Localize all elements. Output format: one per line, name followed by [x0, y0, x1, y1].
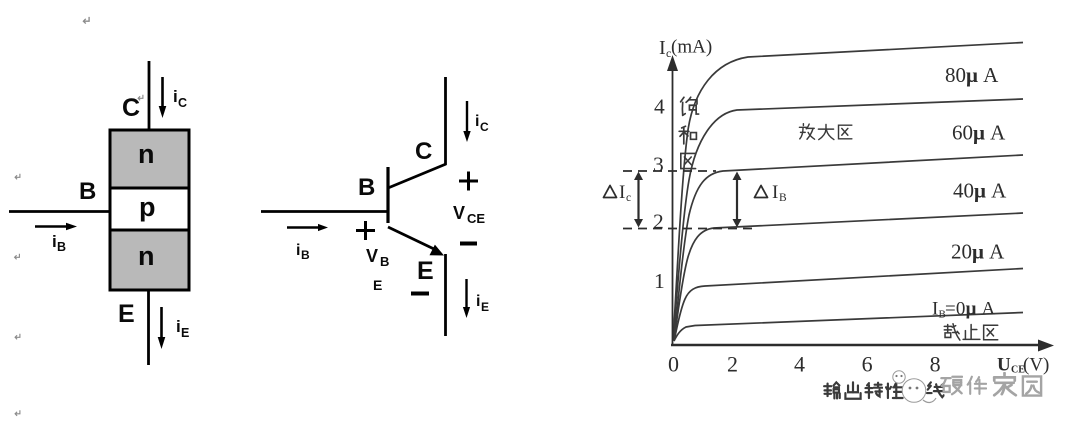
svg-text:I: I: [659, 37, 666, 59]
label delta Ic: [604, 186, 617, 198]
svg-text:2: 2: [727, 352, 738, 377]
svg-text:I: I: [932, 299, 938, 320]
base wire (symbol): [261, 210, 388, 213]
dashed line at Ic=3: [623, 170, 716, 172]
svg-text:80μ A: 80μ A: [945, 63, 999, 87]
small return mark after C: [138, 95, 143, 101]
current arrow iE (symbol): [463, 279, 470, 318]
paragraph return mark left 2: [15, 254, 20, 260]
svg-text:(V): (V): [1023, 355, 1049, 376]
svg-text:i: i: [476, 293, 480, 310]
svg-text:E: E: [417, 257, 434, 285]
region label saturation (vertical) : char bao: [681, 97, 699, 115]
collector vertical wire: [444, 77, 447, 165]
watermark char jia: [994, 373, 1016, 395]
svg-text:(mA): (mA): [671, 37, 712, 58]
current arrow iE (structure): [158, 307, 166, 349]
char qu (amplification): [839, 125, 852, 139]
char qu (saturation): [681, 153, 696, 168]
char qu (cutoff): [984, 325, 998, 339]
current arrow iB (structure): [35, 223, 77, 230]
svg-text:6: 6: [862, 352, 873, 377]
minus sign VCE: [460, 242, 477, 246]
logo foot squiggle: [923, 398, 936, 402]
svg-text:C: C: [122, 94, 140, 122]
x-axis: [671, 344, 1043, 346]
svg-text:C: C: [480, 120, 489, 134]
curve IB=60uA: [674, 155, 1023, 340]
region label amplification: char fang: [799, 124, 814, 139]
caption: char shu (output): [824, 382, 840, 398]
n region (top): [110, 130, 189, 188]
svg-text:B: B: [57, 240, 66, 254]
plus sign VBE: [356, 221, 375, 240]
svg-text:E: E: [373, 277, 382, 293]
label delta IB: [755, 186, 768, 198]
curve IB=40uA: [674, 213, 1023, 340]
emitter vertical wire: [444, 254, 447, 336]
svg-text:p: p: [139, 192, 156, 222]
x-axis arrowhead: [1038, 340, 1054, 352]
paragraph return mark left 3: [15, 334, 20, 340]
char zhi: [963, 325, 980, 340]
char chu: [845, 382, 860, 398]
svg-text:n: n: [138, 241, 155, 271]
svg-text:B: B: [79, 178, 96, 205]
base bar: [386, 167, 389, 223]
p region (middle): [110, 188, 189, 230]
curve IB=100uA (top, unlabeled): [673, 43, 1023, 341]
plus sign VCE: [459, 172, 478, 191]
svg-text:I: I: [772, 182, 778, 203]
emitter diagonal with arrow: [388, 227, 434, 249]
svg-text:3: 3: [653, 153, 664, 177]
svg-text:0: 0: [668, 352, 679, 377]
svg-text:C: C: [178, 96, 187, 110]
svg-text:V: V: [453, 203, 465, 223]
y-axis arrowhead: [667, 55, 678, 71]
char te: [866, 383, 883, 398]
svg-text:CE: CE: [467, 211, 485, 226]
current arrow iC (structure): [159, 77, 167, 118]
svg-text:B: B: [358, 174, 375, 201]
svg-text:n: n: [138, 139, 155, 169]
paragraph return mark top: [83, 17, 89, 24]
svg-text:=0μ A: =0μ A: [945, 299, 996, 320]
char xian: [927, 382, 944, 397]
watermark logo small circle: [893, 371, 905, 383]
svg-text:i: i: [475, 113, 479, 130]
svg-text:I: I: [619, 182, 625, 203]
svg-text:c: c: [626, 192, 631, 204]
svg-text:20μ A: 20μ A: [951, 240, 1005, 264]
emitter wire (structure): [147, 290, 150, 365]
svg-text:E: E: [481, 300, 489, 314]
current arrow iC (symbol): [463, 101, 470, 142]
char da: [818, 124, 833, 139]
logo faces: [895, 375, 918, 390]
svg-text:4: 4: [654, 95, 665, 119]
paragraph return mark left 1: [15, 174, 20, 180]
watermark char yuan: [1023, 376, 1041, 395]
svg-text:B: B: [380, 254, 389, 269]
svg-text:1: 1: [654, 269, 665, 293]
n region (bottom): [110, 230, 189, 290]
svg-text:60μ A: 60μ A: [952, 121, 1006, 145]
svg-text:40μ A: 40μ A: [953, 179, 1007, 203]
svg-text:8: 8: [930, 352, 941, 377]
svg-text:B: B: [301, 248, 310, 262]
char xing: [886, 383, 903, 398]
svg-text:2: 2: [653, 210, 664, 234]
collector wire: [148, 61, 151, 129]
watermark char ying: [941, 377, 962, 394]
curve IB=0uA: [674, 313, 1023, 342]
base wire (structure): [9, 210, 110, 213]
delta Ic double arrow: [634, 172, 643, 228]
curve IB=80uA: [673, 99, 1023, 340]
watermark logo big circle: [902, 379, 926, 403]
svg-text:E: E: [181, 326, 189, 340]
svg-text:E: E: [118, 300, 135, 328]
svg-text:V: V: [366, 246, 378, 266]
svg-text:4: 4: [794, 352, 805, 377]
svg-text:i: i: [296, 242, 300, 259]
minus sign under E: [411, 292, 429, 296]
svg-text:B: B: [779, 192, 787, 204]
char he: [679, 126, 696, 144]
dashed line at Ic=2: [623, 228, 757, 230]
collector diagonal: [388, 164, 446, 188]
char quv (curve): [908, 383, 920, 397]
current arrow iB (symbol): [287, 224, 328, 231]
delta IB double arrow: [733, 172, 742, 228]
curve IB=20uA: [674, 269, 1023, 342]
svg-text:C: C: [415, 138, 432, 165]
watermark char jian: [968, 377, 986, 394]
y-axis: [672, 66, 674, 345]
paragraph return mark left 4: [15, 410, 20, 416]
region label cutoff: char jie: [944, 324, 960, 340]
